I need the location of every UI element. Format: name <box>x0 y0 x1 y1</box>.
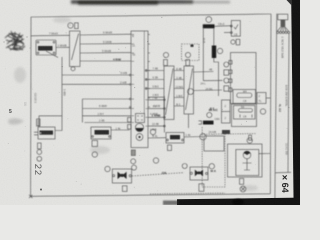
wire 24 B/L right of column D <box>194 89 223 92</box>
junction mark near dashed box <box>191 45 194 47</box>
wiper motor1 circle dark half <box>136 128 144 131</box>
check mark inside ignition switch box <box>234 25 238 30</box>
U1 terminal pin 1 <box>229 61 232 65</box>
long horizontal wires band <box>82 98 129 100</box>
circled node E above column D <box>185 52 190 57</box>
dark connector label 24A/B <box>222 130 230 134</box>
faint pencil smudge left-middle <box>8 118 24 124</box>
top-left: circled A <box>68 23 73 28</box>
relay coil M4 inside U1 <box>233 90 256 104</box>
wire 1 4k from relay R2 to wiper switch <box>111 129 130 131</box>
fuse F2 vertical black body <box>212 46 216 59</box>
connector tag below relay R3 <box>38 143 42 149</box>
diode pack DP box <box>166 133 184 144</box>
central box inner pin ticks <box>132 35 135 123</box>
connector tag below washer tank <box>240 179 244 185</box>
circled node O mid-right column <box>224 62 229 67</box>
vertical wire & marks right of GN box <box>128 118 131 123</box>
wire: box to connector (1 WH/B) <box>56 46 70 48</box>
ground marker circle B2 <box>132 165 137 170</box>
ground marker circle below relay R3 <box>37 150 42 155</box>
intermittent wiper switch S1 connector <box>70 31 81 67</box>
rear wiper motor M2 box <box>112 169 131 183</box>
U1 terminal pin 2 <box>229 70 232 74</box>
black scan edge right <box>291 0 300 205</box>
wire W-B horizontal run to node column <box>203 79 222 81</box>
wire stub to ignition switch pin 2 <box>224 32 230 34</box>
wire down to fuse F2 <box>213 28 215 46</box>
column C switch diagonal <box>166 69 174 116</box>
wires central box to col C <box>148 71 164 98</box>
connector tag below ignition switch <box>236 39 240 45</box>
central big connector box <box>131 31 148 148</box>
washer pump motor circle <box>243 151 251 159</box>
ground marker circle B1 <box>131 159 136 164</box>
main diagram content <box>29 14 291 206</box>
switch S1 wiper contact diagonal <box>72 34 79 61</box>
connector tag below DP box <box>168 145 172 151</box>
relay R4 box with coil 5A <box>232 104 257 127</box>
circled node N near 88 A/C <box>207 112 212 117</box>
relay R2 box left-middle <box>91 127 111 139</box>
bottom-left corner x mark <box>29 195 32 198</box>
right sidebar verticals <box>275 14 277 206</box>
motor1 bowtie <box>118 172 123 179</box>
sidebar connector symbol top-right <box>278 14 288 20</box>
connector tag mid-right column <box>224 70 229 75</box>
wiper motor M1 commutator circle <box>136 134 143 141</box>
box "2" two cells <box>222 100 231 123</box>
circled node L left of motor M3 <box>182 164 187 169</box>
wire down from column D <box>188 114 190 128</box>
column D switch diagonal <box>186 69 193 111</box>
wiper motor M1 armature circle <box>135 123 143 131</box>
left pen scribble blob <box>5 31 25 50</box>
circled node G above column C <box>163 52 168 57</box>
connector tag below wiper motor <box>131 150 135 156</box>
circled node B right of motor M3 <box>209 164 214 169</box>
circled node B below 2TL <box>260 109 265 114</box>
wire: left border to connector (7 WH/X) <box>31 34 70 37</box>
vertical wire W-B from fusible link <box>202 28 204 80</box>
circled node L left of motor M2 <box>105 166 110 171</box>
connector tag below motor M3 <box>199 184 204 192</box>
connector label black bar IG <box>203 121 214 125</box>
main frame border <box>31 14 271 17</box>
washer pump inner box <box>236 150 259 176</box>
relay R3 box bottom-left <box>38 127 55 139</box>
circled A over fusible link <box>206 17 212 23</box>
ground symbol circled X below washer tank <box>240 186 246 192</box>
circled node H beside fuse F2 <box>217 48 222 53</box>
connector tag above column D <box>186 60 190 66</box>
circled node left of DP box <box>150 129 155 134</box>
dashed wire motor M2 to motor M3 <box>132 173 184 176</box>
wiper amplifier U1 big box <box>231 53 257 104</box>
ground marker circle 2 below relay R3 <box>37 156 42 161</box>
terminal box 2TL <box>257 93 266 104</box>
washer tank outer box <box>228 144 263 177</box>
top-left squared tag <box>75 23 79 29</box>
sidebar divider above X64 <box>275 171 291 174</box>
connector tag below relay R2 <box>92 141 98 147</box>
connector tag below motor M2 <box>122 186 127 192</box>
wire 2TL to right border <box>266 97 270 99</box>
connector tag 2 mid-right column <box>224 86 229 91</box>
dashed box around col D header <box>182 44 200 61</box>
wire B 3L from motor to node bus <box>148 137 166 139</box>
top edge dark smudge streak <box>71 0 230 5</box>
U1 terminal pin 3 <box>229 79 232 83</box>
circled node C mid-right column <box>224 78 229 83</box>
contact symbol box inside wiper switch <box>136 114 145 123</box>
ground marker circle B below relay R2 <box>92 152 97 157</box>
black scan bar bottom <box>177 198 300 205</box>
wire washer pump to right border <box>259 153 271 155</box>
pin circle below switch S1 <box>71 67 75 71</box>
circled node A below ignition switch <box>231 40 235 44</box>
circled node T above washer tank <box>247 138 252 143</box>
wire 1 4b from DP box to right <box>184 136 203 139</box>
ignition switch box top right <box>231 21 240 37</box>
circled node T bottom left area <box>153 158 158 163</box>
central box pins left stubs <box>129 74 131 76</box>
small tag W above washer tank <box>249 135 252 140</box>
scan speckle noise <box>5 12 290 193</box>
circled junction N on column D <box>188 89 194 95</box>
connector column C <box>164 66 174 120</box>
washer motor M3 box <box>190 167 208 180</box>
wires into central box left, mid height <box>62 74 129 76</box>
connector tag above column C <box>164 60 168 66</box>
fusible link black <box>203 24 215 28</box>
relay R1 box top-left <box>36 40 56 55</box>
wires connector -> central box <box>80 33 131 36</box>
motor2 bowtie <box>195 170 199 177</box>
rotated X 64 bottom-right <box>280 174 290 192</box>
motor bowties (dark) <box>118 128 251 179</box>
washer pump dark <box>244 151 251 153</box>
wire from fuse F2 down to relay block <box>214 58 219 96</box>
vertical feed wire left <box>55 57 62 131</box>
junction box inside dashed area <box>204 136 224 151</box>
wires between columns <box>174 71 184 107</box>
washer pump pickup tube <box>243 159 252 170</box>
central box pins right side stubs <box>148 35 150 108</box>
connector tag above relay R3 <box>37 119 40 126</box>
connector column D <box>184 66 194 114</box>
dashed wires right-middle <box>201 127 203 187</box>
vertical small texts <box>34 37 289 155</box>
wire 4B right of column D <box>194 71 214 74</box>
circled node on junction box corner <box>200 134 206 140</box>
faint gray patches <box>14 17 258 191</box>
U1 terminal pin 4 <box>229 88 232 92</box>
